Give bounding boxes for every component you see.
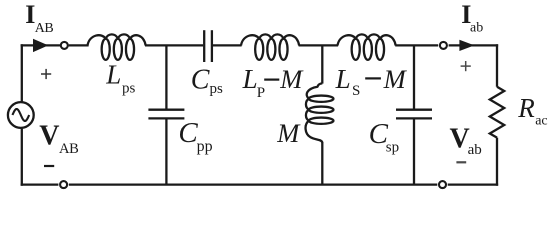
capacitor C_pp top stem	[165, 45, 167, 108]
capacitor C_sp top stem	[413, 45, 415, 108]
wire: L_S-M to terminal a	[395, 44, 438, 46]
terminal b	[439, 181, 446, 188]
wire: bottom-right corner to terminal b	[448, 183, 498, 185]
wire: terminal a to top-right corner	[449, 44, 499, 46]
svg-text:AB: AB	[35, 21, 54, 36]
svg-text:ps: ps	[210, 81, 224, 97]
current arrow I_AB	[33, 39, 48, 52]
minus sign right	[456, 161, 466, 163]
wire: resistor to bottom-right corner	[496, 138, 498, 186]
inductor M bottom stem	[321, 142, 323, 184]
svg-text:L: L	[242, 64, 258, 94]
svg-text:M: M	[279, 64, 304, 94]
inductor M coil (vertical)	[306, 83, 334, 142]
minus sign left	[44, 165, 54, 167]
capacitor C_pp bottom stem	[165, 120, 167, 185]
label L_S-M minus	[365, 77, 381, 79]
svg-text:sp: sp	[386, 140, 399, 156]
capacitor C_sp plates	[396, 109, 432, 111]
terminal A	[61, 42, 68, 49]
svg-text:ps: ps	[122, 80, 136, 96]
inductor L_S-M	[338, 34, 396, 59]
svg-text:L: L	[335, 64, 351, 94]
wire: L_P-M to L_S-M through node	[299, 44, 339, 46]
wire: C_ps right plate to L_P-M	[213, 44, 242, 46]
terminal a	[440, 42, 447, 49]
wire: left vertical, top segment	[21, 44, 23, 101]
wire: right vertical down to resistor	[496, 44, 498, 87]
inductor L_ps	[88, 34, 146, 59]
wire: L_ps to C_ps left plate	[145, 44, 203, 46]
svg-text:L: L	[105, 60, 121, 90]
AC source V_AB circle	[8, 102, 34, 128]
wire: terminal A to L_ps	[69, 44, 89, 46]
wire: terminal B to bottom-left corner	[21, 183, 59, 185]
svg-text:P: P	[257, 85, 265, 101]
wire: terminal b to terminal B	[69, 183, 438, 185]
inductor L_P-M	[241, 34, 299, 59]
svg-text:C: C	[178, 117, 198, 149]
inductor M top stem	[321, 45, 323, 83]
svg-text:S: S	[352, 83, 360, 99]
resistor R_ac zigzag	[490, 87, 504, 138]
plus sign right	[461, 61, 471, 71]
svg-text:V: V	[39, 121, 59, 152]
capacitor C_sp bottom stem	[413, 120, 415, 185]
svg-text:C: C	[191, 64, 210, 95]
wire: top-left corner to terminal A	[21, 44, 60, 46]
current arrow I_ab	[459, 40, 474, 51]
svg-text:ab: ab	[468, 142, 482, 158]
terminal B	[60, 181, 67, 188]
svg-text:ac: ac	[535, 114, 547, 129]
AC source sine symbol	[12, 109, 29, 121]
svg-text:R: R	[517, 93, 535, 123]
capacitor C_ps plates	[203, 30, 205, 62]
label L_P-M minus	[264, 78, 279, 80]
plus sign left	[41, 69, 51, 79]
svg-text:pp: pp	[197, 138, 213, 155]
wire: left vertical, bottom segment	[21, 129, 23, 186]
svg-text:ab: ab	[470, 21, 483, 36]
svg-text:AB: AB	[59, 141, 78, 157]
capacitor C_pp plates	[148, 109, 184, 111]
svg-text:M: M	[383, 64, 408, 94]
svg-text:M: M	[276, 118, 301, 148]
